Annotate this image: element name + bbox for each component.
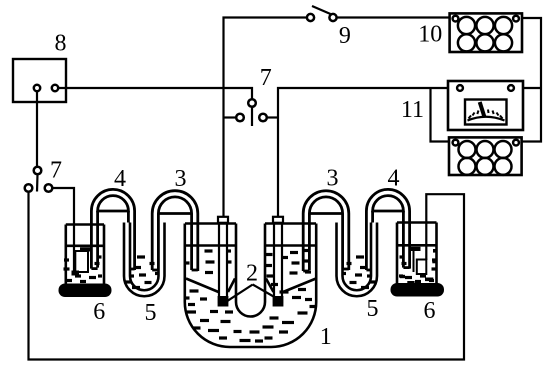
- svg-text:2: 2: [246, 261, 258, 287]
- svg-text:10: 10: [418, 22, 442, 48]
- svg-text:9: 9: [339, 23, 351, 49]
- svg-text:4: 4: [388, 166, 400, 192]
- svg-text:5: 5: [145, 300, 157, 326]
- svg-text:3: 3: [175, 166, 187, 192]
- svg-text:6: 6: [424, 298, 436, 324]
- svg-text:3: 3: [327, 166, 339, 192]
- svg-text:11: 11: [401, 97, 424, 123]
- svg-text:7: 7: [260, 65, 272, 91]
- svg-text:7: 7: [50, 158, 62, 184]
- svg-text:8: 8: [55, 31, 67, 57]
- svg-text:5: 5: [367, 296, 379, 322]
- svg-text:4: 4: [114, 166, 126, 192]
- svg-text:1: 1: [320, 324, 332, 350]
- svg-text:6: 6: [93, 299, 105, 325]
